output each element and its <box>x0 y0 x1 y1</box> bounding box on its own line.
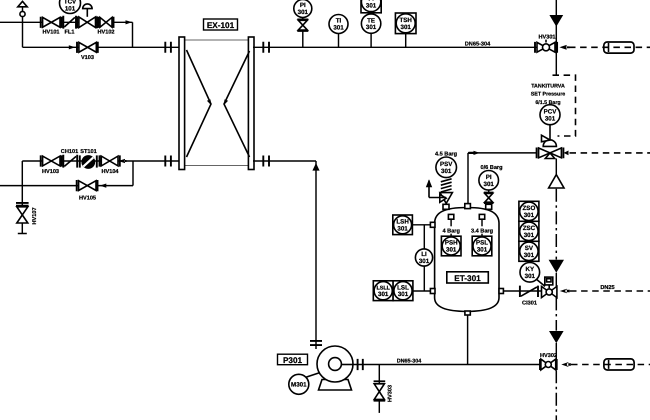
valve CI301 <box>520 286 538 307</box>
label 4.5 Barg <box>435 152 458 158</box>
svg-text:301: 301 <box>366 24 377 31</box>
wire PSL tap <box>479 214 484 236</box>
valve HV103 <box>41 155 62 174</box>
flow arrow line3 left <box>118 159 126 163</box>
svg-text:301: 301 <box>441 168 452 175</box>
instrument TCV 101 bubble <box>60 0 81 14</box>
svg-text:ET-301: ET-301 <box>454 274 481 283</box>
wire drain branch HV303 <box>378 365 380 413</box>
instrument LSL 301 square <box>393 281 413 301</box>
flow arrow line2 right <box>69 45 76 49</box>
svg-text:301: 301 <box>524 232 535 239</box>
instrument TT 301 square (clipped at top) <box>361 0 381 13</box>
svg-text:301: 301 <box>419 258 430 265</box>
wire EX outlet top to HV301 <box>253 46 556 48</box>
wire PSH tap <box>448 214 453 236</box>
svg-text:TANKITURVA: TANKITURVA <box>531 83 565 89</box>
instrument PSV 301 <box>436 157 457 178</box>
svg-text:4 Barg: 4 Barg <box>442 229 460 235</box>
label DN25 <box>600 285 614 291</box>
valve HV102 <box>97 17 114 36</box>
wire tank bottom to discharge line <box>467 315 469 365</box>
flow arrow down right header top <box>549 15 563 27</box>
valve HV105 <box>77 180 98 201</box>
flange pair EX bottom-left <box>165 156 171 167</box>
PCV actuator stem and dome <box>542 125 557 147</box>
instrument TE 301 <box>361 14 380 47</box>
dashed boundary TANKITURVA box <box>553 75 576 136</box>
tank nozzle right stub <box>499 289 503 294</box>
svg-text:CH101: CH101 <box>61 149 78 155</box>
flow arrow into HV301 from right <box>559 45 569 50</box>
capsule connector bottom-right <box>604 359 634 370</box>
flange pair EX bottom-right <box>263 156 269 167</box>
strainer ST101 <box>80 149 97 169</box>
svg-text:EX-101: EX-101 <box>207 21 235 30</box>
valve automatic ball with solenoid <box>537 277 557 298</box>
svg-text:SET Pressure: SET Pressure <box>531 92 566 98</box>
wire right header vertical top <box>555 0 557 47</box>
svg-text:HV107: HV107 <box>32 207 38 224</box>
svg-text:HV104: HV104 <box>101 169 119 175</box>
tank nozzle LSH stub <box>430 222 435 227</box>
wire drain branch HV107 <box>18 161 27 234</box>
tank ET-301 vessel body <box>435 208 499 312</box>
svg-text:HV103: HV103 <box>42 169 59 175</box>
tank nozzle PSV stub <box>443 204 449 209</box>
flow arrow tank top line right <box>469 151 480 155</box>
svg-text:PSV: PSV <box>440 161 453 168</box>
instrument ZSO 301 square <box>519 201 539 221</box>
svg-text:PI: PI <box>486 174 492 181</box>
wire dashed DN25 right <box>570 290 650 292</box>
svg-text:P301: P301 <box>283 356 303 365</box>
svg-text:301: 301 <box>366 3 377 10</box>
wire line3 lower circuit to exchanger <box>22 160 180 162</box>
svg-text:301: 301 <box>524 212 535 219</box>
valve HV301 ball <box>535 35 557 53</box>
pump P301 body <box>317 346 353 390</box>
heat exchanger EX-101 body <box>179 37 254 170</box>
flow arrow into ball valve from right <box>560 289 570 294</box>
svg-text:301: 301 <box>298 9 309 16</box>
svg-text:PCV: PCV <box>544 108 558 115</box>
svg-text:0/6 Barg: 0/6 Barg <box>480 164 503 171</box>
PSV301 spring <box>441 179 452 192</box>
svg-text:DN65-304: DN65-304 <box>397 359 422 365</box>
svg-text:HV302: HV302 <box>540 353 557 359</box>
instrument TI 301 <box>329 15 348 48</box>
label 3.4 Barg <box>470 226 495 234</box>
svg-text:3.4 Barg: 3.4 Barg <box>471 229 494 235</box>
wire line1 top inlet <box>0 22 133 47</box>
label box ET-301 <box>447 272 489 283</box>
label 4 Barg <box>441 226 462 234</box>
valve HV303 <box>374 381 394 402</box>
flow arrow into HV302 from right <box>561 362 571 367</box>
valve HV104 <box>100 155 120 174</box>
wire tank top to PCV <box>468 152 537 154</box>
valve PCV301 three-way body <box>537 148 564 159</box>
wire line4 lower return <box>0 161 133 186</box>
svg-text:HV101: HV101 <box>42 30 59 36</box>
wire LSL connection <box>413 290 431 292</box>
flow arrow pump suction corner up <box>312 163 319 171</box>
motor M301 <box>289 373 320 395</box>
note TANKITURVA set pressure <box>531 83 566 105</box>
instrument PSH 301 square <box>441 236 461 256</box>
filter FL1 <box>63 16 76 36</box>
svg-text:ST101: ST101 <box>80 149 96 155</box>
wire dash-dot below ball valve <box>555 297 557 330</box>
flange pair pump discharge <box>358 359 363 370</box>
vent triangle <box>18 1 27 6</box>
tank bottom nozzle stub <box>465 311 470 315</box>
svg-text:301: 301 <box>484 181 495 188</box>
flow arrow down lower header <box>549 331 564 343</box>
flange pair pump suction <box>310 341 322 345</box>
svg-text:301: 301 <box>333 25 344 32</box>
svg-text:M301: M301 <box>291 382 307 389</box>
flow arrow line4 left <box>100 184 107 188</box>
svg-text:301: 301 <box>378 291 389 298</box>
svg-text:DN25: DN25 <box>600 285 614 291</box>
capsule connector top-right <box>604 42 634 53</box>
svg-text:301: 301 <box>446 247 457 254</box>
instrument PCV 301 <box>540 105 560 125</box>
svg-text:101: 101 <box>65 6 76 13</box>
valve HV302 ball <box>540 353 557 370</box>
label box P301 <box>278 354 308 365</box>
wire header to ball valve junction <box>555 273 557 291</box>
tank nozzle LSL stub <box>430 289 435 294</box>
instrument LSH 301 square <box>393 215 413 235</box>
instrument SV 301 square <box>519 241 539 261</box>
svg-text:HV301: HV301 <box>538 35 555 41</box>
tank nozzle PI stub <box>486 204 492 209</box>
svg-text:301: 301 <box>545 115 556 122</box>
wire dashed to top capsule <box>569 46 650 48</box>
wire LSH connection <box>412 224 431 226</box>
wire tank top center riser <box>467 153 469 204</box>
tank nozzle center stub <box>465 204 471 209</box>
svg-text:301: 301 <box>477 247 488 254</box>
valve PI root on tank <box>484 190 494 204</box>
instrument LI 301 <box>415 249 432 266</box>
flange pair EX top-left <box>165 42 171 53</box>
label DN65-304 discharge <box>397 359 422 365</box>
wire line2 bypass to exchanger <box>23 46 181 48</box>
svg-text:HV303: HV303 <box>388 385 394 402</box>
flow arrow line1 right <box>126 20 133 24</box>
svg-text:FL1: FL1 <box>65 30 75 36</box>
instrument PSL 301 square <box>472 236 492 256</box>
svg-text:DN65-304: DN65-304 <box>465 42 491 48</box>
instrument TSH 301 square <box>395 13 416 47</box>
label DN65-304 top line <box>465 42 491 48</box>
svg-text:TCV: TCV <box>64 0 77 5</box>
wire PSV riser <box>445 194 447 205</box>
instrument ZSC 301 square <box>519 221 539 241</box>
wire dashed PCV signal right <box>570 152 650 154</box>
flow arrow into PCV from right <box>564 151 569 156</box>
valve HV107 <box>16 203 38 225</box>
wire dashed to bottom capsule <box>571 364 650 366</box>
relief valve PSV301 body <box>426 179 453 203</box>
wire dash-dot below HV302 <box>555 370 557 420</box>
svg-text:CI301: CI301 <box>522 301 537 307</box>
label 0/6 Barg <box>480 164 503 171</box>
svg-text:4.5 Barg: 4.5 Barg <box>435 152 458 158</box>
flow arrow down mid header <box>549 260 564 273</box>
svg-text:HV105: HV105 <box>79 195 96 201</box>
valve V103 <box>77 42 98 61</box>
svg-text:301: 301 <box>398 291 409 298</box>
wire dash-dot header mid <box>555 189 557 260</box>
svg-text:301: 301 <box>401 24 412 31</box>
wire header to HV302 <box>555 343 557 365</box>
instrument PI 301 tank <box>479 171 499 191</box>
svg-text:301: 301 <box>525 273 536 280</box>
sample point circle <box>20 11 25 16</box>
instrument PI 301 top with root valve <box>294 0 312 47</box>
wire header between HV301 and PCV <box>555 47 557 74</box>
svg-text:HV102: HV102 <box>97 30 114 36</box>
svg-text:V103: V103 <box>81 55 94 61</box>
wire vent branch vertical <box>22 7 24 47</box>
check valve CH101 <box>61 149 78 168</box>
valve HV101 <box>41 17 62 36</box>
wire tank to CI301 <box>503 290 556 292</box>
wire level gauge vertical <box>423 225 425 291</box>
wire below PCV solid <box>555 159 557 176</box>
heat exchanger EX-101 label box <box>204 19 238 30</box>
wire pump discharge <box>352 364 540 366</box>
flange pair EX top-right <box>263 42 269 53</box>
TCV101 actuator dome <box>83 4 92 17</box>
control valve TCV101 body <box>77 16 97 28</box>
instrument KY 301 <box>520 263 540 283</box>
wire EX bottom-right to pump suction <box>253 161 316 349</box>
svg-text:301: 301 <box>524 252 535 259</box>
instrument LSLL 301 square <box>373 281 393 301</box>
svg-text:301: 301 <box>397 225 408 232</box>
reducer open triangle up <box>549 175 564 188</box>
